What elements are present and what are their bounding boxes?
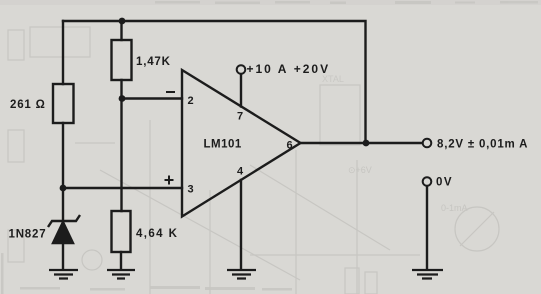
svg-text:3: 3: [188, 184, 194, 196]
svg-text:4,64 K: 4,64 K: [136, 228, 178, 240]
svg-text:261 Ω: 261 Ω: [10, 99, 46, 111]
svg-text:6: 6: [287, 140, 293, 152]
svg-text:8,2V ± 0,01m A: 8,2V ± 0,01m A: [437, 139, 528, 151]
svg-text:0V: 0V: [436, 177, 453, 189]
svg-text:1N827: 1N827: [9, 229, 47, 241]
svg-text:4: 4: [237, 166, 244, 178]
svg-text:+10 A +20V: +10 A +20V: [247, 62, 331, 76]
svg-text:7: 7: [237, 111, 243, 123]
svg-text:2: 2: [188, 95, 194, 107]
svg-text:LM101: LM101: [204, 139, 242, 151]
svg-text:1,47K: 1,47K: [136, 56, 171, 68]
svg-text:0-1mA: 0-1mA: [441, 203, 468, 213]
svg-text:⊙+6V: ⊙+6V: [348, 165, 372, 175]
